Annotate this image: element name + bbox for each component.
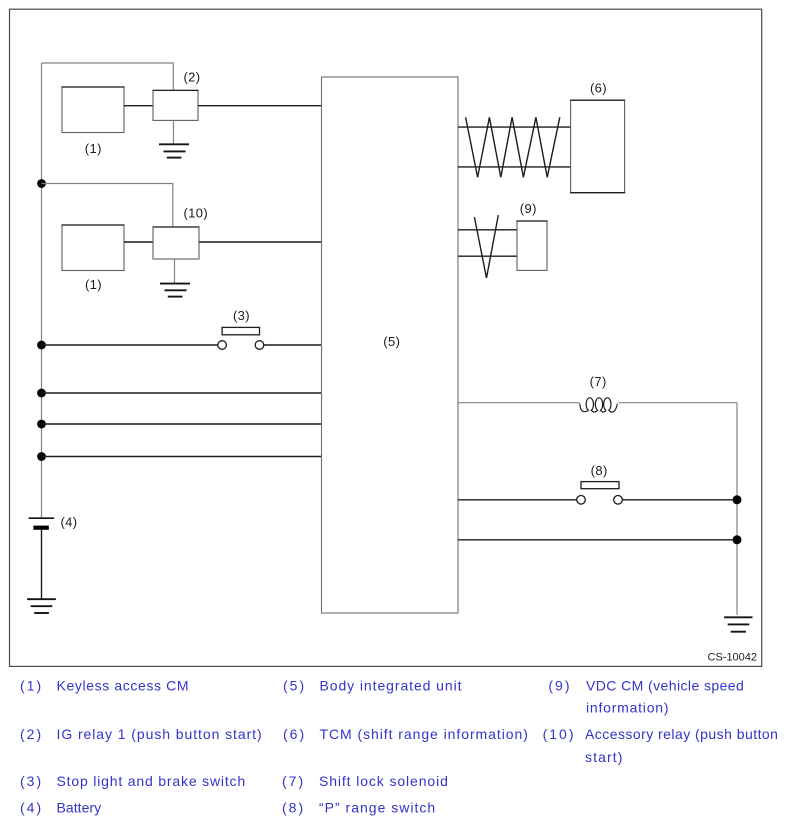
svg-text:(1): (1)	[85, 277, 102, 292]
svg-text:(5): (5)	[283, 678, 306, 694]
wire unit to VDC lower	[458, 255, 517, 257]
svg-text:start): start)	[585, 749, 624, 765]
wire battery to ground	[41, 530, 43, 599]
resistor zigzag on TCM lines	[466, 117, 560, 177]
wire unit bottom to right bus	[458, 539, 737, 541]
svg-text:Shift lock solenoid: Shift lock solenoid	[319, 773, 449, 789]
svg-text:Accessory relay (push button: Accessory relay (push button	[585, 726, 778, 742]
node junction on bus at y424	[37, 420, 46, 429]
accessory relay box U10	[153, 227, 199, 259]
svg-text:(9): (9)	[520, 201, 537, 216]
node junction right bus y539.8	[733, 535, 742, 544]
wire switch 3 to body integrated unit	[264, 344, 322, 346]
body integrated unit box U5	[322, 77, 459, 613]
battery B4 plate short thick	[33, 526, 48, 530]
svg-text:(3): (3)	[233, 308, 250, 323]
ground under battery	[27, 599, 56, 613]
svg-text:Keyless access CM: Keyless access CM	[57, 678, 190, 694]
svg-text:CS-10042: CS-10042	[708, 652, 758, 664]
svg-text:information): information)	[586, 700, 669, 716]
wire loop from bus to accessory relay	[42, 184, 173, 228]
wire unit to P range switch	[458, 499, 577, 501]
ground under relay 2	[159, 144, 189, 157]
ground under relay 10	[160, 284, 190, 297]
node junction on bus at y393	[37, 389, 46, 398]
svg-text:(8): (8)	[282, 799, 305, 815]
wire relay 2 ground stem	[173, 120, 175, 144]
svg-text:(2): (2)	[183, 69, 200, 84]
wire switch 8 to right bus	[622, 499, 737, 501]
wire bus to body integrated unit row 3	[42, 423, 322, 425]
P range switch S8 actuator bar	[581, 482, 619, 489]
svg-text:(6): (6)	[283, 726, 306, 742]
svg-text:Body integrated unit: Body integrated unit	[320, 678, 463, 694]
resistor V zigzag on VDC lines	[474, 215, 498, 278]
wire bus to body integrated unit row 4	[42, 456, 322, 458]
wire box1 to relay 10	[124, 241, 153, 243]
svg-text:(4): (4)	[60, 515, 77, 530]
svg-text:(10): (10)	[183, 206, 208, 221]
wire bus to body integrated unit row 2	[42, 392, 322, 394]
ground at right bus	[724, 617, 752, 631]
svg-text:(2): (2)	[20, 726, 43, 742]
svg-text:IG relay 1 (push button start): IG relay 1 (push button start)	[57, 726, 263, 742]
svg-text:(10): (10)	[543, 726, 576, 742]
svg-text:(4): (4)	[20, 799, 43, 815]
IG relay 1 box U2	[153, 90, 198, 120]
node junction on bus at y183.5	[37, 179, 46, 188]
svg-text:(9): (9)	[548, 678, 571, 694]
svg-text:(3): (3)	[20, 773, 43, 789]
svg-text:(8): (8)	[591, 463, 608, 478]
keyless access CM box 1 (bottom)	[62, 225, 124, 271]
wire top loop from bus to IG relay 1	[42, 63, 174, 90]
P range switch S8 contacts	[577, 496, 586, 505]
battery B4 plate long	[29, 517, 54, 519]
svg-text:VDC CM (vehicle speed: VDC CM (vehicle speed	[586, 678, 744, 694]
svg-text:(1): (1)	[85, 141, 102, 156]
stop light and brake switch S3 actuator bar	[222, 327, 259, 334]
TCM box U6	[571, 100, 625, 193]
node junction on bus at y345	[37, 341, 46, 350]
wire unit to solenoid	[458, 402, 580, 404]
svg-text:TCM (shift range information): TCM (shift range information)	[320, 726, 529, 742]
wire bus to stop light switch	[42, 344, 218, 346]
stop light and brake switch S3 contacts	[218, 341, 227, 350]
wire box1 to relay 2	[124, 105, 153, 107]
svg-text:“P” range switch: “P” range switch	[319, 799, 436, 815]
wire relay 10 to body integrated unit	[199, 241, 322, 243]
wire left bus vertical	[41, 63, 43, 518]
svg-text:Battery: Battery	[57, 799, 102, 815]
wire unit to TCM upper	[458, 126, 571, 128]
node junction on bus at y456.5	[37, 452, 46, 461]
svg-text:(1): (1)	[20, 678, 43, 694]
shift lock solenoid coil L7	[580, 398, 618, 412]
wire relay 10 ground stem	[174, 259, 176, 284]
node junction right bus y499.8	[733, 495, 742, 504]
VDC CM box U9	[517, 221, 547, 270]
wire relay 2 to body integrated unit	[198, 105, 322, 107]
wire right bus vertical	[736, 403, 738, 615]
wire unit to VDC upper	[458, 229, 517, 231]
keyless access CM box 1 (top)	[62, 87, 124, 133]
svg-text:(5): (5)	[383, 334, 400, 349]
svg-text:(6): (6)	[590, 80, 607, 95]
svg-text:(7): (7)	[590, 374, 607, 389]
svg-text:(7): (7)	[282, 773, 305, 789]
wire solenoid to right bus	[619, 402, 738, 404]
svg-text:Stop light and brake switch: Stop light and brake switch	[57, 773, 246, 789]
wire unit to TCM lower	[458, 166, 571, 168]
